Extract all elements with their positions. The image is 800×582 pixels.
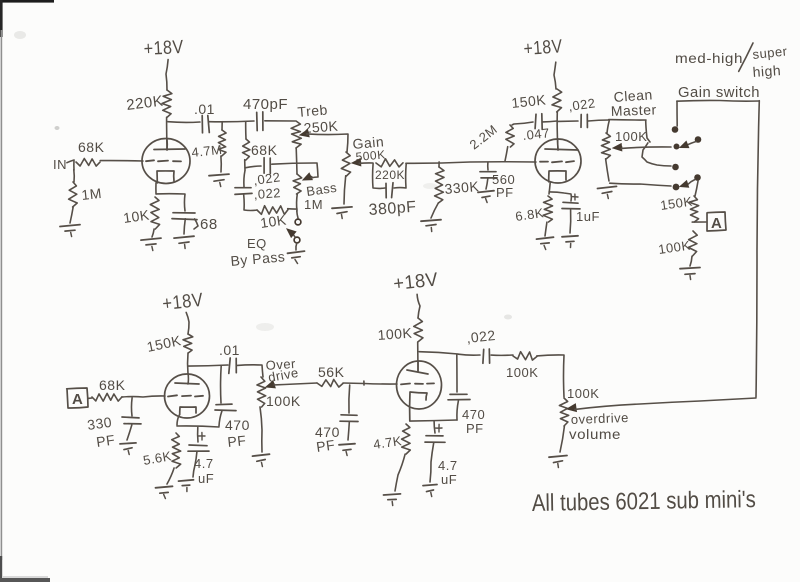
- switch contact upper bottom: [672, 164, 679, 171]
- potentiometer Overdrive Volume 100K: [559, 398, 568, 426]
- svg-text:Master: Master: [611, 101, 657, 119]
- svg-text:A: A: [711, 215, 722, 232]
- wire 1M to ground: [70, 207, 73, 223]
- wire 100K divider to ground: [690, 256, 692, 266]
- svg-text:68K: 68K: [251, 142, 278, 158]
- wire lower pole to 150K: [695, 181, 698, 196]
- wire 68K tone lead: [245, 122, 247, 139]
- svg-text:10K: 10K: [259, 211, 288, 231]
- svg-text:68: 68: [200, 216, 218, 233]
- wire 560pF to ground: [486, 179, 488, 189]
- potentiometer Gain 500K: [341, 152, 350, 176]
- svg-text:4.7: 4.7: [438, 458, 458, 473]
- ground divider: [680, 268, 700, 280]
- wire clean ground to lower switch: [610, 183, 671, 186]
- wire +18V stage4: [417, 294, 420, 318]
- wire divider node to A box: [692, 221, 706, 223]
- wire +18V stage2: [554, 62, 556, 89]
- wire +18V to 220K: [166, 60, 168, 90]
- wire 470pF stem stage4a: [348, 385, 351, 413]
- wire odvol pot to ground: [560, 426, 564, 452]
- svg-text:100K: 100K: [266, 393, 301, 409]
- wire EQ switch to ground: [295, 243, 298, 250]
- svg-text:4.7K: 4.7K: [372, 433, 403, 452]
- wire 470pF to cathode rail: [219, 411, 222, 426]
- wire 4.7uF stem stage4: [433, 421, 436, 433]
- resistor 100K stage4: [414, 318, 423, 342]
- svg-text:380pF: 380pF: [368, 199, 417, 219]
- wire .01 to overdrive pot: [237, 365, 263, 377]
- wire 4.7K to ground: [395, 454, 405, 491]
- svg-text:150K: 150K: [511, 91, 547, 111]
- box 220K left side: [373, 164, 385, 189]
- capacitor .01 stage1: [202, 116, 209, 133]
- triode V4: [397, 361, 442, 421]
- wire 470pF stem stage4b: [456, 354, 458, 392]
- svg-text:4.7: 4.7: [194, 456, 214, 471]
- ground 4.7K: [384, 494, 401, 506]
- wire Bass to EQ switch: [297, 211, 298, 218]
- wire clean wiper to switch: [621, 147, 671, 148]
- wire .022a left lead: [245, 166, 261, 168]
- ground clean master: [598, 186, 617, 198]
- resistor 100K series: [513, 352, 537, 360]
- resistor 10K tone: [257, 206, 288, 215]
- wire .01 to 470pF: [209, 120, 254, 123]
- wire 10K to Bass bottom: [288, 208, 297, 210]
- svg-text:PF: PF: [496, 185, 514, 200]
- svg-text:100K: 100K: [657, 238, 691, 257]
- svg-text:220K: 220K: [125, 93, 164, 114]
- svg-text:,022: ,022: [466, 327, 497, 346]
- wire 56K to V4 grid: [343, 383, 397, 384]
- svg-text:Treb: Treb: [297, 101, 329, 120]
- resistor 68K stage3: [92, 393, 122, 401]
- potentiometer Bass 1M: [293, 174, 302, 194]
- wire 100K to V4 plate: [417, 342, 419, 371]
- scanner edge left dark top: [0, 0, 3, 37]
- svg-text:220K: 220K: [375, 168, 405, 182]
- svg-text:150K: 150K: [659, 194, 693, 213]
- capacitor .01 stage3: [229, 358, 237, 373]
- wire .022b to 10K: [244, 195, 257, 211]
- capacitor .022 a: [264, 158, 270, 174]
- ground 560pF: [478, 191, 494, 203]
- plus mark 4.7uF b h: [435, 427, 442, 429]
- ground Gain: [332, 207, 352, 219]
- ground 68 cap: [174, 236, 194, 248]
- ground 330K: [421, 220, 441, 232]
- wire 4.7uF to ground: [193, 452, 197, 477]
- ground EQ switch: [288, 251, 305, 263]
- wire right rail: [756, 101, 759, 397]
- capacitor 470pF stage3: [215, 404, 236, 411]
- resistor 68K tone: [243, 139, 251, 160]
- svg-text:PF: PF: [227, 432, 247, 450]
- wire clean top hook: [646, 120, 650, 142]
- wire 220K to plate junction: [166, 117, 168, 150]
- resistor 5.6K: [172, 433, 181, 468]
- svg-text:56K: 56K: [318, 364, 345, 380]
- plus mark 1uF: [572, 196, 578, 198]
- capacitor 470pF grid stage4: [340, 415, 358, 422]
- ground 1M: [60, 225, 80, 237]
- ground 4.7uF stage3: [179, 480, 194, 492]
- wire clean master top: [609, 119, 646, 121]
- svg-text:100K: 100K: [377, 325, 413, 343]
- capacitor .022 b: [235, 188, 252, 195]
- ground overdrive pot: [253, 454, 270, 466]
- capacitor 470pF plate stage4: [448, 394, 470, 400]
- plus mark 1uF v: [574, 194, 576, 200]
- resistor 56K: [317, 379, 343, 387]
- wire 330pF to ground: [127, 425, 132, 440]
- wire 150K to V3 plate: [187, 353, 189, 374]
- wire plate junction to .022: [558, 120, 578, 122]
- capacitor 470pF: [257, 112, 263, 131]
- wire 330K to ground: [431, 203, 438, 218]
- svg-text:+18V: +18V: [392, 269, 439, 295]
- wire 560pF lead: [487, 162, 489, 170]
- plus mark 4.7uF b v: [438, 424, 440, 432]
- resistor 68K input: [76, 159, 100, 167]
- capacitor 68 cathode bypass: [172, 213, 197, 220]
- svg-text:A: A: [72, 391, 83, 408]
- svg-text:uF: uF: [441, 472, 457, 487]
- wire plate junction stage3: [188, 365, 228, 366]
- ground odvol: [549, 456, 567, 468]
- wire .022 to clean master: [588, 120, 609, 121]
- resistor 330K: [435, 167, 444, 203]
- triode V2: [535, 139, 581, 183]
- wire 4.7uF stem: [197, 427, 199, 442]
- resistor 220K series: [376, 159, 403, 167]
- wire +18V stage3: [186, 312, 189, 334]
- potentiometer Clean Master 100K: [601, 133, 610, 159]
- EQ switch contact top: [295, 219, 301, 225]
- scanner edge bottom light: [2, 576, 48, 578]
- svg-text:volume: volume: [569, 426, 621, 442]
- switch lever upper: [680, 141, 696, 147]
- capacitor 1uF: [562, 202, 580, 209]
- svg-text:,022: ,022: [567, 95, 596, 114]
- wire 470pF plate to cathode rail: [457, 401, 459, 420]
- resistor 220K: [162, 90, 172, 117]
- svg-text:By Pass: By Pass: [230, 248, 286, 269]
- paper smudge b: [55, 126, 60, 130]
- wire V1 cathode: [155, 183, 157, 194]
- wire 68K to tube V1 grid: [100, 160, 143, 162]
- wire odvol wiper long: [575, 398, 756, 409]
- wiper arrow Gain: [352, 159, 361, 166]
- svg-text:.047: .047: [522, 125, 551, 143]
- switch lever lower: [680, 180, 695, 188]
- wire 4.7uF stage4 to ground: [430, 443, 434, 482]
- ground 1uF: [562, 236, 578, 248]
- scanner edge left dark bottom: [0, 556, 2, 582]
- node A box top-right: [707, 212, 726, 231]
- svg-text:1M: 1M: [304, 197, 323, 212]
- wire 5.6K to ground: [167, 468, 174, 484]
- svg-text:470: 470: [225, 417, 250, 433]
- switch terminal lower: [673, 184, 680, 191]
- resistor 4.7M: [218, 130, 226, 156]
- wiper arrow Overdrive: [266, 381, 275, 388]
- ground 4.7uF stage4: [423, 485, 437, 497]
- potentiometer Treb 250K: [291, 121, 301, 148]
- wire top rail: [677, 99, 759, 102]
- wire IN tick: [67, 160, 74, 170]
- potentiometer Overdrive 100K: [257, 377, 266, 407]
- svg-text:150K: 150K: [145, 332, 182, 355]
- wire cathode branch to bypass cap: [156, 194, 185, 211]
- paper smudge e: [504, 315, 512, 320]
- svg-text:330: 330: [86, 414, 113, 433]
- svg-text:470pF: 470pF: [243, 96, 288, 113]
- wire 6.8K to ground: [545, 222, 547, 236]
- svg-text:+18V: +18V: [161, 290, 204, 315]
- ground 10K: [141, 238, 161, 250]
- resistor 100K divider: [688, 231, 697, 256]
- wire 470pF to Treb: [265, 120, 295, 122]
- wire 470pF stem stage3: [220, 366, 223, 403]
- ground 4.7M: [209, 174, 229, 186]
- svg-text:10K: 10K: [122, 206, 151, 226]
- svg-text:EQ: EQ: [247, 236, 267, 251]
- svg-text:PF: PF: [466, 421, 484, 436]
- svg-text:100K: 100K: [567, 386, 599, 401]
- junction tick 56K wire: [363, 381, 365, 385]
- svg-text:PF: PF: [95, 431, 116, 449]
- wire V2 cathode: [549, 183, 550, 194]
- wiper arrow Bass: [303, 173, 312, 180]
- wire cathode to 1uF: [549, 192, 571, 201]
- wire Bass to 10K node: [296, 194, 299, 211]
- wiper arrow Treb: [300, 130, 309, 137]
- wire overdrive pot to ground: [260, 407, 262, 452]
- slash med-high/super: [739, 43, 753, 71]
- wire A to 68K: [88, 397, 92, 399]
- ground 470pF grid: [339, 444, 355, 456]
- plus mark 4.7uF a h: [198, 435, 205, 437]
- ground 6.8K: [537, 237, 554, 249]
- capacitor 560pF: [480, 172, 497, 178]
- svg-text:PF: PF: [315, 436, 336, 454]
- paper smudge a: [14, 31, 26, 39]
- wire 1uF to ground: [569, 210, 572, 233]
- svg-text:uF: uF: [198, 471, 214, 486]
- wiper arrow Overdrive Volume: [567, 404, 576, 412]
- svg-text:470: 470: [462, 407, 485, 422]
- triode V1: [142, 139, 190, 184]
- wire 150K to V2 plate: [556, 112, 559, 150]
- svg-text:.01: .01: [219, 342, 240, 358]
- resistor 4.7K: [402, 424, 411, 454]
- svg-text:All tubes 6021 sub mini's: All tubes 6021 sub mini's: [532, 486, 756, 517]
- plus mark 4.7uF a v: [201, 432, 203, 440]
- resistor 150K stage3: [183, 334, 193, 353]
- wire cathode rail V4: [410, 420, 457, 421]
- svg-text:5.6K: 5.6K: [142, 448, 173, 468]
- svg-text:high: high: [752, 62, 782, 80]
- svg-text:68K: 68K: [99, 377, 126, 393]
- wire hook S-curve to switch: [642, 143, 671, 166]
- capacitor 380pF: [386, 183, 393, 198]
- wiper arrow Clean Master: [613, 144, 622, 151]
- svg-text:.01: .01: [194, 101, 215, 117]
- triode V3: [165, 374, 210, 418]
- switch pole upper: [695, 136, 702, 143]
- capacitor .022 stage2: [581, 114, 587, 127]
- EQ switch contact bottom: [294, 237, 300, 243]
- svg-text:4.7M: 4.7M: [191, 142, 223, 160]
- wire 2.2M top to .047: [512, 122, 533, 125]
- EQ switch lever arrow: [287, 229, 296, 237]
- svg-text:100K: 100K: [615, 129, 647, 144]
- scanner edge top bar: [0, 0, 54, 3]
- switch contact upper top: [672, 126, 679, 133]
- resistor 150K stage2: [552, 89, 562, 112]
- svg-text:6.8K: 6.8K: [514, 205, 545, 224]
- svg-text:2.2M: 2.2M: [467, 122, 501, 153]
- scanner edge bottom bar: [0, 578, 50, 582]
- wire plate to .022 stage4: [458, 353, 480, 356]
- wire plate junction stage4: [419, 352, 458, 354]
- wire plate junction to .01 cap: [168, 121, 200, 124]
- resistor 6.8K: [543, 196, 552, 222]
- svg-text:IN: IN: [53, 157, 67, 172]
- node A box bottom-left: [67, 388, 88, 408]
- box 220K right side: [394, 164, 406, 188]
- svg-text:1M: 1M: [81, 185, 103, 203]
- wire cathode rail V3: [177, 426, 219, 427]
- svg-text:med-high: med-high: [675, 50, 743, 66]
- resistor 150K divider: [689, 196, 698, 222]
- wire 4.7M lead: [221, 122, 223, 130]
- wire .047 to plate junction: [543, 120, 557, 123]
- wire overdrive wiper to 56K: [274, 383, 317, 385]
- svg-text:100K: 100K: [506, 365, 538, 380]
- svg-text:,022: ,022: [253, 185, 281, 202]
- wire Gain to ground: [344, 176, 346, 204]
- wire Treb wiper to Gain: [307, 134, 348, 152]
- wire 2.2M to grid wire: [505, 147, 508, 161]
- paper smudge c: [256, 323, 274, 331]
- switch pole lower: [694, 174, 701, 181]
- svg-text:1uF: 1uF: [576, 209, 600, 224]
- paper smudge d: [423, 183, 437, 189]
- scanner edge left line: [1, 30, 3, 560]
- wire .022 to 100K: [491, 354, 513, 356]
- wire tone out to V2 grid: [406, 162, 536, 164]
- wire 68cap to ground: [184, 219, 185, 234]
- wire 10K to ground: [152, 229, 154, 237]
- ground 5.6K: [156, 486, 173, 498]
- capacitor .022 stage4: [483, 349, 490, 363]
- svg-text:+18V: +18V: [523, 36, 563, 60]
- ground 330pF: [120, 443, 136, 455]
- wire switch top to rail: [676, 101, 678, 126]
- resistor 10K cathode: [150, 197, 159, 229]
- wire clean pot lead: [607, 120, 609, 133]
- wire .022a to Bass wiper box: [272, 163, 318, 178]
- capacitor 330pF: [122, 417, 141, 424]
- svg-text:68K: 68K: [78, 139, 105, 155]
- wire 330pF stem: [130, 398, 133, 416]
- wire 100K to corner: [537, 355, 564, 397]
- wire 4.7M to ground: [220, 156, 222, 172]
- wire 470pF grid to ground: [348, 422, 349, 440]
- capacitor 4.7uF stage3: [188, 445, 209, 451]
- svg-text:330K: 330K: [444, 178, 480, 197]
- svg-text:overdrive: overdrive: [571, 410, 629, 427]
- wire Gain wiper to 220K box: [359, 162, 373, 164]
- capacitor .047: [535, 114, 542, 130]
- wire V3 cathode: [177, 415, 179, 425]
- wire 68K to .022a: [244, 160, 246, 170]
- wire clean pot bottom: [606, 159, 609, 181]
- switch terminal upper wiper: [674, 144, 680, 150]
- wire 330K lead: [438, 162, 440, 167]
- wire 68K to V3 grid: [122, 396, 165, 397]
- svg-text:super: super: [752, 43, 789, 62]
- svg-text:Gain switch: Gain switch: [678, 84, 760, 101]
- capacitor 4.7uF stage4: [425, 436, 445, 443]
- tick before 68: [194, 219, 198, 229]
- wire Treb to Bass: [295, 148, 298, 174]
- svg-text:+18V: +18V: [143, 37, 184, 60]
- resistor 1M: [69, 182, 78, 207]
- resistor 2.2M: [506, 125, 514, 147]
- wire .022b top lead: [244, 170, 245, 187]
- wire 1M lead: [73, 170, 75, 182]
